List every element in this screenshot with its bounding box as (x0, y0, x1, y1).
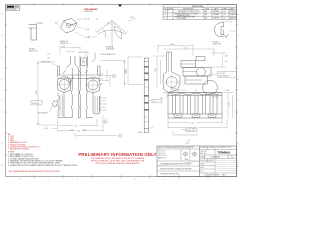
bottom-right view right dims (223, 93, 234, 119)
lower right column with rounded end (93, 93, 100, 114)
svg-text:TE CONNECTIVITY LTD: TE CONNECTIVITY LTD (216, 147, 231, 149)
svg-text:(1.30): (1.30) (82, 129, 87, 131)
left bulb with hole (58, 77, 71, 93)
svg-text:0.10: 0.10 (102, 100, 105, 102)
svg-text:00779: 00779 (200, 167, 204, 169)
right bulb with hole (87, 77, 100, 93)
main front view outline (53, 52, 102, 118)
boxed callout 4X (31, 101, 42, 105)
svg-text:* ALL DIMENSIONS ARE SHOWN AFT: * ALL DIMENSIONS ARE SHOWN AFTER PLATING… (8, 170, 61, 173)
svg-text:1 PLC ± 0.1: 1 PLC ± 0.1 (158, 153, 166, 155)
revision table (163, 5, 237, 20)
red revision notes (bottom-left) (8, 133, 40, 151)
detail B label (100, 46, 117, 56)
svg-text:8: 8 (19, 178, 20, 180)
upper side edges (58, 66, 101, 77)
neck (167, 52, 172, 72)
center V feature (67, 77, 73, 84)
svg-text:0.64: 0.64 (62, 46, 65, 48)
svg-text:01FEB08: 01FEB08 (213, 11, 219, 13)
side strip bands (144, 66, 148, 111)
svg-text:0.40: 0.40 (225, 61, 228, 63)
svg-text:TERMINAL: TERMINAL (217, 150, 231, 154)
datum circle B (104, 120, 107, 123)
svg-text:WT --: WT -- (200, 171, 204, 173)
svg-text:0 PLC ± 0.2: 0 PLC ± 0.2 (158, 151, 166, 153)
svg-text:(1.40): (1.40) (170, 44, 175, 46)
svg-text:6: 6 (77, 178, 78, 180)
svg-text:4X R0.15: 4X R0.15 (32, 103, 39, 105)
feature control frame above title block (173, 128, 198, 135)
svg-text:ZONE: ZONE (168, 8, 172, 10)
svg-text:1.05: 1.05 (187, 140, 190, 142)
black general notes (8, 152, 78, 167)
bottom-right section view (168, 93, 222, 119)
svg-text:0.20: 0.20 (150, 128, 153, 130)
main view bottom dimensions (58, 115, 104, 132)
svg-text:2X 0.30: 2X 0.30 (171, 88, 177, 90)
detail A1 view (hexagonal hook section) (61, 19, 78, 34)
svg-text:0.30: 0.30 (72, 24, 75, 26)
detail C dimension (37, 22, 44, 24)
svg-text:0.64: 0.64 (100, 74, 103, 76)
svg-text:2 PLC ± 0.05: 2 PLC ± 0.05 (158, 155, 166, 157)
top-left stamp box (6, 5, 20, 11)
detail C view (top-left) (29, 25, 37, 40)
dim row between views (75, 134, 117, 138)
svg-text:2X 0.30: 2X 0.30 (84, 19, 90, 21)
preliminary stamp small (top center, red) (84, 8, 98, 13)
side strip view (144, 58, 148, 133)
svg-text:0.2: 0.2 (233, 31, 235, 33)
lower wavy edge to right (169, 93, 220, 96)
right view top dimensions (158, 45, 214, 57)
svg-text:2.10: 2.10 (126, 70, 128, 73)
callout box 2X SEE DETAIL D (218, 72, 237, 78)
svg-text:(1.10): (1.10) (44, 128, 49, 130)
svg-text:6. QUALIFICATION TEST CHARACTE: 6. QUALIFICATION TEST CHARACTERISTICS AS… (8, 164, 78, 167)
central legs running down (71, 68, 74, 118)
svg-text:B: B (194, 130, 195, 132)
svg-text:1: 1 (222, 178, 223, 180)
svg-text:17°: 17° (108, 22, 111, 24)
detail D label (213, 40, 222, 45)
detail A1 dims (58, 19, 84, 37)
sheet border frame (6, 5, 237, 177)
side strip dim (128, 57, 143, 85)
detail B dims (92, 19, 136, 39)
svg-text:1.30: 1.30 (155, 69, 157, 72)
svg-text:(0.13): (0.13) (85, 29, 90, 31)
svg-text:7. PACKAGING ON REEL: 7. PACKAGING ON REEL (8, 148, 29, 151)
svg-text:2X (0.40): 2X (0.40) (219, 73, 226, 75)
svg-text:SHEET 1: SHEET 1 (208, 160, 214, 162)
svg-text:(0.15): (0.15) (186, 142, 191, 144)
svg-text:2X R0.25 MIN FULL R: 2X R0.25 MIN FULL R (100, 54, 117, 56)
border zone labels (2, 14, 240, 180)
title block right texts (200, 146, 231, 155)
main view top dimensions (60, 46, 80, 55)
title block left texts (158, 147, 194, 175)
right view bottom texts (160, 97, 219, 100)
bottom closure (64, 117, 93, 120)
tolerance symbols (183, 151, 198, 157)
bottom-right view bottom dims (168, 119, 227, 129)
svg-text:0.64: 0.64 (70, 129, 73, 131)
svg-text:R0.2: R0.2 (88, 37, 91, 39)
svg-text:REVISIONS: REVISIONS (192, 6, 204, 8)
upper cross band edges (58, 75, 101, 78)
main view right-side small dims (100, 98, 107, 110)
svg-text:1.40: 1.40 (47, 54, 50, 56)
svg-text:0.1: 0.1 (186, 130, 188, 132)
svg-text:(2.10): (2.10) (36, 90, 38, 95)
right view right dims (211, 53, 226, 67)
svg-text:R0.1: R0.1 (55, 23, 58, 25)
svg-text:CONN: CONN (184, 159, 188, 161)
svg-text:1.35: 1.35 (229, 103, 231, 106)
svg-text:0.80: 0.80 (225, 56, 228, 58)
detail D dims (225, 21, 233, 31)
svg-text:1.05: 1.05 (191, 123, 194, 125)
bulb (163, 72, 180, 93)
svg-text:2: 2 (193, 178, 194, 180)
svg-text:DWN: DWN (206, 8, 210, 10)
svg-text:PRELIMINARY INFORMATION ONLY: PRELIMINARY INFORMATION ONLY (78, 152, 156, 157)
svg-text:DESCRIPTION: DESCRIPTION (183, 8, 193, 10)
svg-text:1.10: 1.10 (183, 47, 186, 49)
bottom tabs (174, 114, 182, 118)
svg-text:REV C: REV C (222, 175, 226, 177)
svg-text:(0.15): (0.15) (225, 90, 230, 92)
svg-text:C-2373454: C-2373454 (210, 157, 221, 159)
svg-text:3: 3 (164, 178, 165, 180)
title block right grid (200, 146, 237, 173)
svg-text:R0.25: R0.25 (130, 17, 134, 19)
svg-text:01FEB08: 01FEB08 (230, 11, 236, 13)
right stack (181, 61, 196, 68)
detail A1 label (60, 40, 69, 45)
svg-text:UNLESS OTHERWISE SPECIFIED: UNLESS OTHERWISE SPECIFIED (158, 147, 180, 149)
svg-text:WITHOUT WRITTEN PERMISSION IS: WITHOUT WRITTEN PERMISSION IS (216, 168, 238, 170)
top tabs / legs (71, 56, 76, 64)
svg-text:4: 4 (135, 178, 136, 180)
svg-text:5: 5 (106, 178, 107, 180)
svg-text:PRELIMINARY: PRELIMINARY (84, 8, 98, 11)
svg-text:0.13: 0.13 (100, 84, 103, 86)
svg-text:0.1: 0.1 (230, 21, 232, 23)
title block left (tolerances) (157, 146, 200, 171)
left hook clip (53, 101, 59, 107)
right view left dims (153, 56, 166, 88)
top center fold marker (118, 5, 122, 8)
bottom-right view top marks (170, 89, 196, 93)
svg-text:7: 7 (48, 178, 49, 180)
svg-text:CHK D.EF: CHK D.EF (200, 151, 207, 153)
svg-text:1.10: 1.10 (74, 126, 77, 128)
lower left column (58, 93, 64, 118)
detail D view (top-right crescent) (214, 23, 228, 38)
title block outer (157, 146, 237, 177)
svg-text:0.05: 0.05 (39, 23, 42, 25)
svg-text:PROPOSE INTENDED DRAWING INFOR: PROPOSE INTENDED DRAWING INFORMATION (96, 162, 140, 165)
svg-text:MM DIMENSIONS: MM DIMENSIONS (182, 147, 194, 149)
see detail C callout (41, 54, 52, 64)
border zone tick marks (4, 3, 238, 179)
side strip callout (152, 99, 162, 103)
detail B view (large cam profile) (97, 21, 127, 51)
svg-text:0.15: 0.15 (102, 107, 105, 109)
preliminary information only block (78, 152, 156, 165)
svg-text:1.20: 1.20 (47, 58, 50, 60)
restricted paragraph (216, 159, 240, 172)
revision table text (164, 6, 236, 20)
detail C label (29, 48, 38, 53)
right view outline (163, 52, 222, 95)
svg-text:B: B (165, 14, 166, 16)
svg-text:01FEB08: 01FEB08 (208, 147, 214, 149)
svg-text:0.25: 0.25 (100, 79, 103, 81)
svg-text:1.50: 1.50 (77, 131, 80, 133)
dim cluster right of main view (98, 61, 125, 87)
main view dimensions left (38, 62, 57, 125)
internal vertical fins (173, 95, 176, 114)
svg-text:ECO-08-0456: ECO-08-0456 (177, 18, 186, 20)
svg-text:0.25: 0.25 (153, 101, 156, 103)
